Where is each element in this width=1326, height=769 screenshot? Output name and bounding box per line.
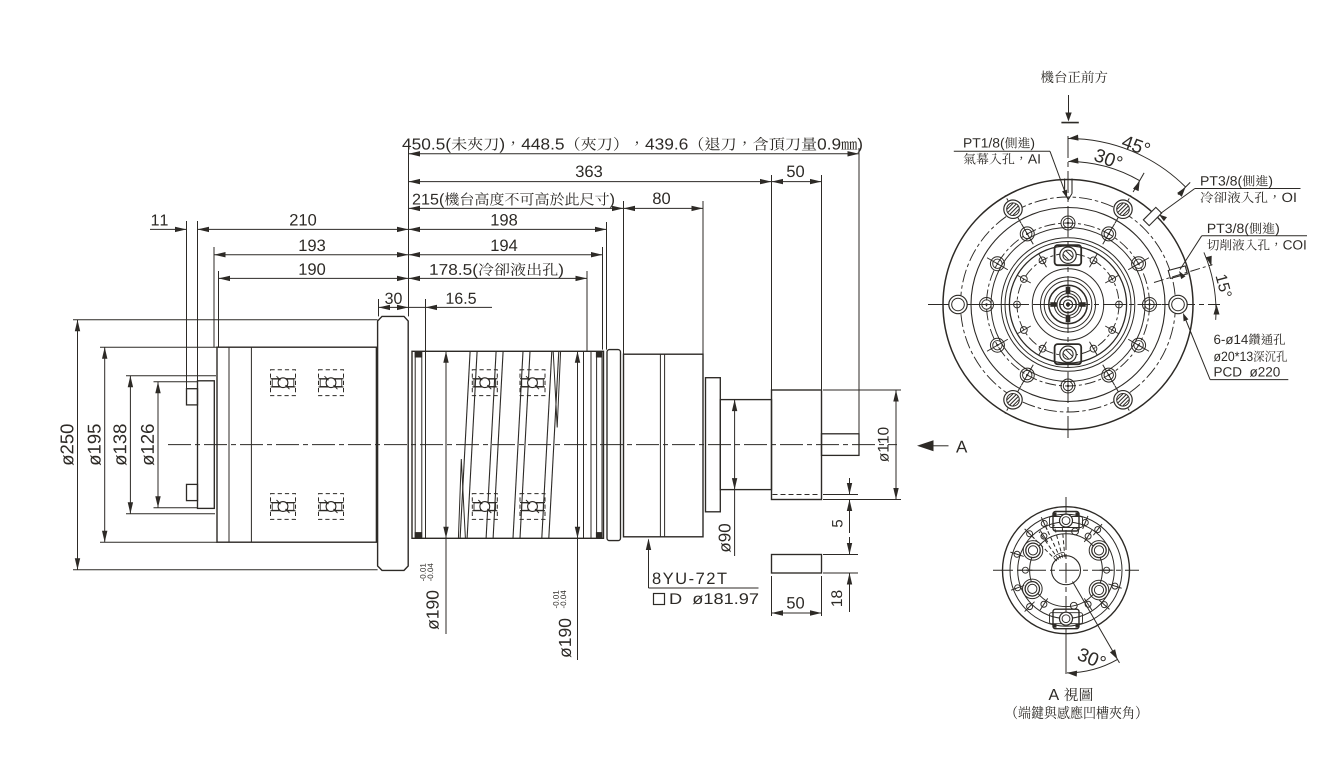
diameter 110 (823, 390, 901, 500)
A view four counterbores (1089, 541, 1109, 561)
clamp cross black bars (1050, 287, 1085, 322)
A view outer circle (1003, 507, 1130, 634)
A view small holes ring 51 (1093, 524, 1102, 535)
A view 30 degree dim (1066, 582, 1120, 677)
A view circle 48 (1018, 522, 1115, 619)
dimension 215 machine height note (409, 192, 624, 211)
diameter 250 (60, 320, 80, 570)
tool clamp shaft end (822, 434, 860, 456)
rear key blocks (187, 389, 198, 501)
label PT3-8 cutting fluid inlet COI (1179, 222, 1307, 279)
port PT3-8 cutting fluid 15deg (1168, 266, 1187, 278)
diameter 190 front tolerance dim (420, 351, 449, 634)
twelve small holes ring (1111, 301, 1127, 308)
rear end cap (198, 381, 215, 509)
extension lines vertical from part to dimension rows (187, 146, 860, 434)
A view circle 56 (1010, 514, 1122, 626)
front view outer flange circle dia 250 (943, 180, 1193, 430)
diameter 190 rear tolerance dim (553, 351, 580, 660)
front view circle ring 77 (991, 228, 1145, 382)
A view scallop circle (1030, 534, 1103, 607)
twelve medium holes ring (1138, 298, 1162, 312)
front view circle ring (971, 208, 1165, 402)
medium bolt circle dash-dot (987, 223, 1150, 386)
motor housing body (217, 347, 376, 542)
stator cooling jacket cylinder (412, 351, 604, 538)
seal rings black (415, 351, 603, 538)
dimension 16.5 (409, 293, 493, 310)
dimension 18 (823, 537, 858, 612)
dimension 178.5 coolant outlet (409, 263, 588, 282)
port PT3-8 coolant 45deg (1143, 207, 1161, 225)
dimension 193 (214, 239, 409, 257)
angle dim 30 (1068, 148, 1144, 192)
label 6 holes dia 14 (1183, 313, 1288, 380)
label 8YU-72T leader (646, 539, 759, 589)
small hole circle dash-dot (1017, 254, 1119, 356)
A view key block top (1050, 512, 1083, 535)
front cover disc (706, 378, 721, 512)
bearing pair front lower (472, 494, 497, 520)
bearing pair rear lower (271, 494, 296, 520)
wire main spindle centerline (168, 444, 897, 446)
dimension 30 flange width (379, 293, 409, 310)
key block bottom (1055, 344, 1082, 364)
dimension 50 block (772, 576, 822, 616)
caption A view (1049, 688, 1093, 702)
A view key block bottom (1050, 602, 1083, 628)
label PT1-8 air inlet (954, 137, 1067, 198)
front view circle ring 35.7 (1032, 269, 1103, 340)
front view circle ring 58.6 (1009, 246, 1126, 363)
port PT1-8 top air curtain (1065, 179, 1072, 200)
A view sensor notch dashed fan (1033, 523, 1065, 561)
diameter 250 extension lines (73, 320, 378, 570)
dimension 50 nose length (772, 165, 822, 184)
lock nut ring (607, 350, 621, 541)
center boss circles (1041, 277, 1096, 332)
diameter 195 (88, 347, 108, 542)
dimension 5 (823, 478, 858, 533)
diameter 138 (113, 376, 133, 514)
bearing pair front upper (472, 370, 497, 396)
A view small holes ring 41 (1100, 567, 1114, 573)
bearing pair rear upper (271, 370, 296, 396)
dimension 210 (198, 214, 409, 232)
A view center bore (1052, 556, 1081, 585)
front bearing housing (624, 354, 704, 537)
mounting flange (378, 316, 409, 570)
dimension 194 (409, 239, 603, 257)
dimension 190 (219, 263, 409, 281)
six mounting holes dia 14 (1162, 295, 1194, 313)
dimension 11 (150, 214, 187, 232)
diameter 126 (141, 382, 161, 508)
spindle nose dia 110 (772, 390, 822, 500)
helical cooling grooves (458, 351, 560, 538)
dimension 80 (624, 192, 704, 211)
bolt circle PCD 220 dash-dot (961, 197, 1176, 412)
A view centerlines (993, 497, 1139, 640)
front view circle rings 63 66 (1001, 238, 1135, 372)
view direction arrow A (917, 440, 967, 452)
front view centerlines (928, 136, 1220, 440)
key block top (1055, 245, 1082, 265)
dimension 450.5 448.5 439.6 overall length (402, 137, 862, 157)
angle dim 15 (1154, 252, 1232, 320)
dimension 363 (409, 165, 772, 184)
caption key sensor angle note (1013, 706, 1139, 719)
diameter 90 (719, 400, 738, 556)
label PT3-8 coolant inlet OI (1159, 175, 1301, 221)
label D 181.97 (654, 593, 759, 604)
tool holder block 50x18 (772, 555, 822, 574)
dimension 198 (409, 214, 607, 232)
label machine front direction (1041, 71, 1107, 123)
spindle neck cylinder dia 90 (720, 400, 771, 490)
angle dim 45 (1068, 134, 1190, 196)
